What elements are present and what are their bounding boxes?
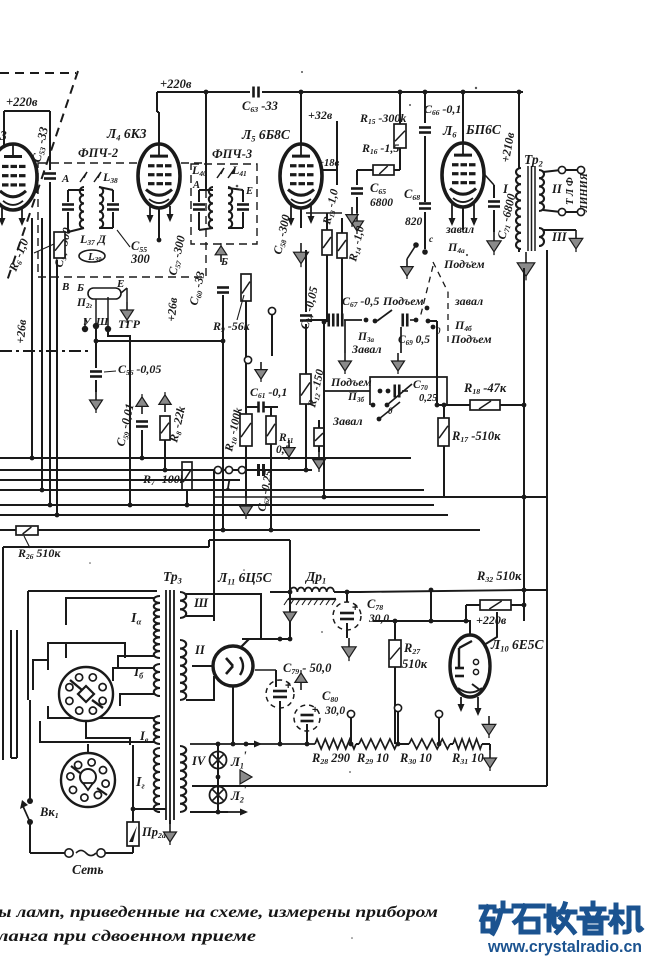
- wire L6 cathode arrows: [451, 204, 453, 224]
- tube L11 internals: [226, 658, 233, 666]
- paper specks: [236, 185, 239, 188]
- resistor R15: [394, 124, 406, 148]
- wire x130 vert: [129, 341, 131, 505]
- wire y213 horizontal: [306, 212, 342, 214]
- wire Iv lead: [48, 706, 154, 718]
- net mains squiggle: [76, 851, 96, 856]
- tube L11 envelope: [213, 646, 253, 686]
- wire C55 top: [112, 190, 114, 202]
- wire lamp bottom wire: [190, 811, 228, 813]
- svg-text:Подъем: Подъем: [330, 375, 372, 389]
- wire +220v bus y92: [157, 91, 250, 93]
- wire R8 down: [164, 440, 166, 470]
- svg-text:R28 290: R28 290: [311, 751, 351, 766]
- capacitor C68: [419, 202, 431, 205]
- wire C59 down: [141, 430, 143, 458]
- wire C79 top: [275, 670, 277, 687]
- capacitor C69: [401, 314, 404, 327]
- resistor R12: [300, 374, 311, 404]
- resistor R18: [470, 400, 500, 410]
- wire dashed diagonal: [6, 71, 78, 284]
- socket XS2 outline: [61, 753, 115, 807]
- wire Ia top lead: [66, 598, 154, 625]
- wire frame right border: [546, 250, 548, 786]
- wire C66 top: [424, 92, 426, 123]
- svg-text:R32 510к: R32 510к: [476, 569, 522, 584]
- wire dashdot y351: [0, 350, 92, 352]
- resistor R30: [409, 739, 450, 749]
- svg-text:': ': [243, 748, 247, 763]
- transformer Tr2 core: [527, 166, 529, 251]
- svg-text:+220в: +220в: [476, 613, 507, 627]
- wire C65 top: [356, 183, 358, 185]
- wire C58 bottom: [242, 212, 244, 228]
- arrow lamp bottom: [228, 811, 246, 813]
- wire y621 long: [373, 620, 466, 622]
- resistor R27: [389, 640, 401, 667]
- wire C56 vert: [95, 341, 97, 368]
- svg-text:+220в: +220в: [160, 77, 192, 91]
- socket XS1 pins: [99, 697, 106, 704]
- capacitor C64cap: [300, 314, 312, 317]
- wire box outer top: [3, 546, 209, 548]
- svg-text:R9 -56k: R9 -56k: [212, 319, 250, 334]
- wire TLF top pair: [566, 169, 577, 171]
- choke Dr1 core: [288, 598, 336, 600]
- wire bus y480: [0, 479, 240, 481]
- wire box inner top: [28, 590, 157, 592]
- svg-text:6800: 6800: [370, 197, 393, 209]
- wire mains right: [105, 852, 133, 854]
- wire left vert x50: [49, 218, 51, 505]
- resistor R29: [359, 739, 397, 749]
- svg-text:Подъем: Подъем: [450, 332, 492, 346]
- watermark glyph ji: [611, 905, 641, 932]
- ground C65: [356, 213, 358, 221]
- coil L37 winding: [80, 187, 84, 228]
- svg-text:820: 820: [405, 216, 423, 228]
- svg-text:ы ламп, приведенные на схеме,: ы ламп, приведенные на схеме, измерены п…: [0, 904, 438, 921]
- resistor R14: [337, 233, 347, 258]
- switch P3b box: [370, 377, 447, 405]
- switch blade row1: [377, 310, 392, 321]
- switch P3b contacts2: [371, 403, 376, 408]
- wire Sh contact drop: [108, 331, 130, 341]
- capacitor C63: [252, 87, 255, 98]
- wire C66 bottom: [424, 136, 426, 202]
- terminal mid x272: [268, 307, 275, 314]
- wire L5 cathode arrows: [290, 206, 292, 224]
- wire R27 top: [394, 621, 396, 640]
- svg-text:510к: 510к: [402, 657, 428, 671]
- wire chain seg3: [450, 743, 453, 745]
- svg-text:Подъем: Подъем: [382, 294, 424, 308]
- fuse Pr2a: [127, 822, 139, 846]
- wire R14 bottom: [341, 258, 343, 322]
- transformer Tr2 winding III: [539, 228, 544, 246]
- transformer Tr3 core: [165, 590, 167, 820]
- junction x524 y497: [522, 495, 527, 500]
- wire x272 down: [271, 315, 273, 356]
- wire L4 anode lead: [156, 92, 158, 112]
- wire lamp vertical: [217, 744, 219, 812]
- wire bus y490: [0, 489, 424, 491]
- wire +220v bus y92 right of C63: [262, 91, 523, 93]
- lamp L1: [210, 752, 227, 769]
- tube L6 envelope: [442, 143, 484, 207]
- socket XS2 pins: [102, 780, 109, 787]
- wire C61 wires: [246, 406, 258, 408]
- svg-text:R17 -510к: R17 -510к: [451, 429, 501, 444]
- ground x261: [260, 362, 262, 370]
- ground C56: [95, 392, 97, 400]
- wire box outer left: [2, 547, 4, 760]
- resistor R31: [453, 739, 482, 749]
- wire Dr1 left: [270, 591, 290, 593]
- wire chain seg1: [356, 743, 359, 745]
- capacitor C56: [90, 370, 102, 373]
- wire P3b left lead: [324, 390, 370, 392]
- svg-text:R16 -1,5: R16 -1,5: [361, 141, 399, 156]
- wire C60 down: [222, 295, 224, 530]
- wire bus y515: [0, 514, 448, 516]
- resistor R8: [160, 416, 170, 440]
- wire bus y470: [0, 469, 312, 471]
- ground C80 top: [300, 682, 302, 690]
- coil arrow mark 3: [217, 168, 224, 178]
- svg-text:ФПЧ-3: ФПЧ-3: [212, 147, 252, 161]
- svg-text:III: III: [551, 230, 568, 244]
- wire leader C56: [104, 371, 116, 372]
- wire R15 top: [399, 92, 401, 124]
- svg-text:ЛИНИЯ: ЛИНИЯ: [579, 172, 590, 213]
- wire left vert x42: [41, 218, 43, 490]
- wire leader C55: [117, 230, 130, 247]
- capacitor C80: [294, 705, 320, 731]
- wire P3a ground drop: [344, 320, 346, 353]
- svg-text:II: II: [194, 643, 206, 657]
- wire y322 left: [306, 319, 327, 321]
- svg-text:С56 -0,05: С56 -0,05: [118, 362, 161, 377]
- terminal TLF 2: [577, 166, 584, 173]
- junction buses: [30, 456, 35, 461]
- svg-text:завал: завал: [445, 222, 474, 236]
- wire Tr2 II terminals: [543, 170, 561, 172]
- wire junction drop to L40: [205, 92, 207, 190]
- switch contacts TGR: [82, 326, 88, 332]
- watermark glyph shou: [546, 904, 575, 932]
- choke Dr1: [290, 588, 334, 593]
- wire x431 vert: [430, 590, 432, 621]
- svg-text:Т Л Ф: Т Л Ф: [565, 177, 576, 205]
- switch contact dots row1b: [414, 318, 419, 323]
- ground TGR: [126, 302, 128, 310]
- resistor R12b: [314, 428, 324, 446]
- switch contact dots row1: [344, 319, 362, 321]
- wire C53 branch vertical: [49, 111, 51, 170]
- wire Vk1 vert top: [29, 700, 31, 800]
- wire R13 bottom: [326, 255, 328, 322]
- wire R32 left vert: [465, 605, 467, 621]
- svg-text:Б: Б: [76, 282, 84, 294]
- tube L10 internals: [458, 648, 460, 668]
- wire R17 top: [443, 405, 445, 418]
- wire left vert x57: [56, 260, 58, 515]
- wire L11 bottom lead: [232, 686, 234, 744]
- wire TGR drop: [95, 326, 97, 341]
- ground x352 y210: [351, 207, 353, 215]
- wire y589 border: [524, 589, 547, 591]
- wire +220v left horizontal: [4, 110, 50, 112]
- wire R32 wires: [466, 604, 480, 606]
- wire L5 anode lead: [300, 92, 302, 143]
- coil L39: [79, 250, 105, 262]
- wire x214 vert: [213, 470, 215, 621]
- svg-text:+26в: +26в: [164, 296, 180, 322]
- capacitor C70: [393, 385, 396, 398]
- switch P2g oval: [88, 288, 121, 299]
- transformer Tr3 winding IV: [180, 746, 186, 812]
- wire R15 bottom: [399, 148, 401, 170]
- wire dashed boundary top-left: [0, 72, 76, 74]
- svg-text:www.crystalradio.cn: www.crystalradio.cn: [487, 937, 642, 956]
- wire R18 right: [500, 404, 524, 406]
- svg-text:Л5 6Б8С: Л5 6Б8С: [241, 127, 291, 143]
- wire x306 bottom: [305, 404, 307, 470]
- wire P2g leads: [121, 288, 127, 293]
- wire y322 right: [430, 320, 437, 322]
- coil arrow mark 2: [94, 172, 101, 182]
- watermark glyph yin: [579, 903, 607, 933]
- wire C55 bottom: [112, 212, 114, 228]
- wire L6 anode lead: [462, 92, 464, 145]
- wire socket frame top: [48, 643, 125, 670]
- wire Ib lead2: [120, 694, 154, 706]
- capacitor C61: [257, 402, 260, 413]
- svg-text:+220в: +220в: [6, 95, 38, 109]
- wire x324 long vert: [323, 322, 325, 497]
- wire C57 top: [198, 190, 200, 202]
- transformer Tr3 winding III: [180, 592, 186, 618]
- svg-text:30,0: 30,0: [368, 613, 389, 625]
- wire box inner left: [27, 591, 29, 700]
- transformer Tr3 winding Iv: [154, 716, 160, 744]
- wire below C53: [49, 182, 51, 218]
- capacitor C71: [488, 200, 500, 203]
- svg-text:А: А: [61, 173, 69, 185]
- wire x306 top: [305, 250, 307, 312]
- svg-text:С67 -0,5: С67 -0,5: [342, 294, 379, 309]
- wire R14 top: [341, 218, 343, 233]
- wire R10 down: [245, 446, 247, 498]
- wire Tr2 III to ground: [543, 229, 576, 231]
- transformer Tr3 winding Ig: [154, 748, 160, 812]
- wire y589 main: [360, 590, 524, 592]
- lamp L2: [210, 787, 227, 804]
- wire C58 top: [242, 190, 244, 202]
- resistor R6: [54, 232, 65, 258]
- ground R12b: [318, 452, 320, 460]
- wire Ia bottom lead: [118, 656, 154, 668]
- ground C71: [493, 232, 495, 241]
- wire leader R26: [24, 536, 30, 548]
- wire C78 ground: [346, 623, 348, 638]
- transformer Tr3 winding Ib: [154, 664, 160, 696]
- ground P3a: [344, 353, 346, 361]
- wire chain end: [482, 743, 490, 745]
- tube L10 envelope: [450, 635, 490, 697]
- ground under L5: [300, 243, 302, 252]
- socket XS1 bars: [70, 680, 82, 690]
- terminal x248 y359: [244, 356, 251, 363]
- svg-text:ТГР: ТГР: [118, 317, 141, 331]
- wire III winding lead2: [186, 615, 214, 617]
- svg-text:Завал: Завал: [351, 342, 382, 356]
- wire C56 to ground: [95, 380, 97, 392]
- svg-text:IV: IV: [191, 754, 207, 768]
- watermark glyph shi: [514, 906, 543, 932]
- svg-text:R18 -47к: R18 -47к: [463, 381, 507, 396]
- svg-text:30,0: 30,0: [324, 705, 345, 717]
- svg-text:0,25: 0,25: [419, 393, 437, 404]
- svg-text:+18в: +18в: [318, 158, 339, 169]
- junction bus-C63 area: [204, 90, 209, 95]
- wire C71 top: [493, 185, 495, 198]
- wire x524 down: [523, 268, 525, 621]
- ground R8 top: [164, 404, 166, 412]
- wire left tall pair: [10, 630, 12, 758]
- wire R18 left: [436, 321, 438, 405]
- wire dashed linkage P4a: [420, 266, 433, 318]
- junction x306: [304, 468, 309, 473]
- ground above B: [220, 255, 222, 262]
- wire lamp top wire: [190, 743, 315, 745]
- svg-text:ланга при сдвоенном приеме: ланга при сдвоенном приеме: [0, 928, 256, 945]
- switch P4a contacts: [413, 242, 419, 248]
- wire C71 bottom: [493, 210, 495, 232]
- ground Tr3 bottom: [169, 820, 171, 824]
- svg-text:': ': [243, 782, 247, 797]
- svg-text:300: 300: [130, 252, 151, 266]
- svg-text:ФПЧ-2: ФПЧ-2: [78, 146, 118, 160]
- resistor R26: [16, 526, 38, 535]
- capacitor C60: [217, 286, 229, 289]
- coil L38 winding: [99, 187, 103, 228]
- resistor R28: [315, 739, 356, 749]
- wire bus y530: [0, 529, 480, 531]
- svg-text:Л10 6Е5С: Л10 6Е5С: [490, 637, 545, 653]
- wire R9 down: [245, 301, 247, 458]
- wire C54 top: [67, 190, 69, 202]
- wire left vert x32: [31, 218, 33, 458]
- resistor R13: [322, 230, 332, 255]
- capacitor C62: [257, 464, 260, 476]
- socket XS2 key: [80, 769, 96, 785]
- wire L11 top lead: [241, 639, 249, 647]
- wire III winding leads: [186, 594, 261, 639]
- resistor R16: [373, 165, 394, 175]
- wire y639 lead: [242, 638, 290, 640]
- transformer Tr3 winding II: [180, 640, 186, 700]
- svg-text:+32в: +32в: [308, 108, 333, 122]
- socket XS2 bars: [71, 766, 80, 773]
- terminal chain t1: [350, 718, 352, 744]
- resistor R9: [241, 274, 251, 301]
- resistor R32: [480, 600, 511, 610]
- svg-text:Завал: Завал: [332, 414, 363, 428]
- wire R16 left: [357, 169, 373, 171]
- svg-text:С63 -33: С63 -33: [242, 99, 278, 114]
- terminal TLF 3: [558, 208, 565, 215]
- block FPCh-2 dashed box: [38, 163, 206, 277]
- wire C69 ground drop: [400, 327, 402, 353]
- wire Dr1 right to C78: [334, 591, 360, 593]
- wire left vert to tube L3: [3, 111, 5, 148]
- resistor R17: [438, 418, 449, 446]
- capacitor C65: [351, 187, 363, 190]
- wire socket frame2: [65, 643, 67, 658]
- switch contact dots P4b: [431, 325, 436, 330]
- tube L3 envelope: [0, 144, 37, 210]
- ground Tr2 bottom: [525, 252, 527, 263]
- transformer Tr2 winding I: [516, 168, 521, 249]
- switch P3b contacts3: [377, 417, 382, 422]
- wire U Sh leads: [84, 318, 86, 326]
- wire R7 down: [186, 490, 188, 505]
- wire Tr2 top lead: [518, 92, 520, 168]
- wire chain seg2: [397, 743, 409, 745]
- transformer Tr2 winding II: [539, 170, 544, 211]
- capacitor C59: [136, 420, 148, 423]
- switch P3b contacts: [378, 389, 383, 394]
- watermark glyph kuang: [481, 903, 511, 933]
- capacitor C57: [193, 203, 205, 206]
- svg-text:Л11 6Ц5С: Л11 6Ц5С: [217, 570, 273, 586]
- junction R18: [435, 403, 440, 408]
- svg-text:+: +: [312, 704, 318, 716]
- wire dashed linkage1: [433, 262, 448, 292]
- wire x306 mid: [305, 324, 307, 374]
- fuse mains circle2: [97, 849, 105, 857]
- coil arrow mark 4: [228, 168, 235, 178]
- svg-text:А: А: [192, 180, 200, 191]
- block FPCh-3 dashed box: [191, 164, 257, 244]
- svg-text:С69 0,5: С69 0,5: [398, 334, 430, 347]
- wire L10 grid lead: [430, 590, 432, 621]
- svg-text:+26в: +26в: [13, 318, 29, 344]
- wire y497: [324, 496, 547, 498]
- transformer Tr3 winding Ia: [154, 596, 160, 658]
- wire II winding bottom lead: [186, 676, 214, 700]
- coil L40 winding: [209, 187, 213, 228]
- capacitor C58cap: [237, 203, 249, 206]
- wire R18 left2: [447, 404, 470, 406]
- wire C79 bottom: [279, 701, 281, 744]
- wire L10 arrows: [460, 697, 462, 710]
- resistor R7: [182, 462, 192, 490]
- svg-text:В: В: [61, 281, 69, 293]
- coil L41 winding: [228, 187, 232, 228]
- terminal TLF 4: [577, 208, 584, 215]
- wire Tr2 bottom: [518, 249, 520, 252]
- svg-text:Л4 6К3: Л4 6К3: [106, 126, 147, 142]
- socket XS1 outline: [59, 667, 113, 721]
- wire y497 left seg: [214, 496, 324, 498]
- socket XS1 key: [78, 686, 94, 702]
- junction y589: [522, 588, 527, 593]
- ground P4a: [406, 259, 408, 267]
- ground mid x289: [288, 440, 290, 448]
